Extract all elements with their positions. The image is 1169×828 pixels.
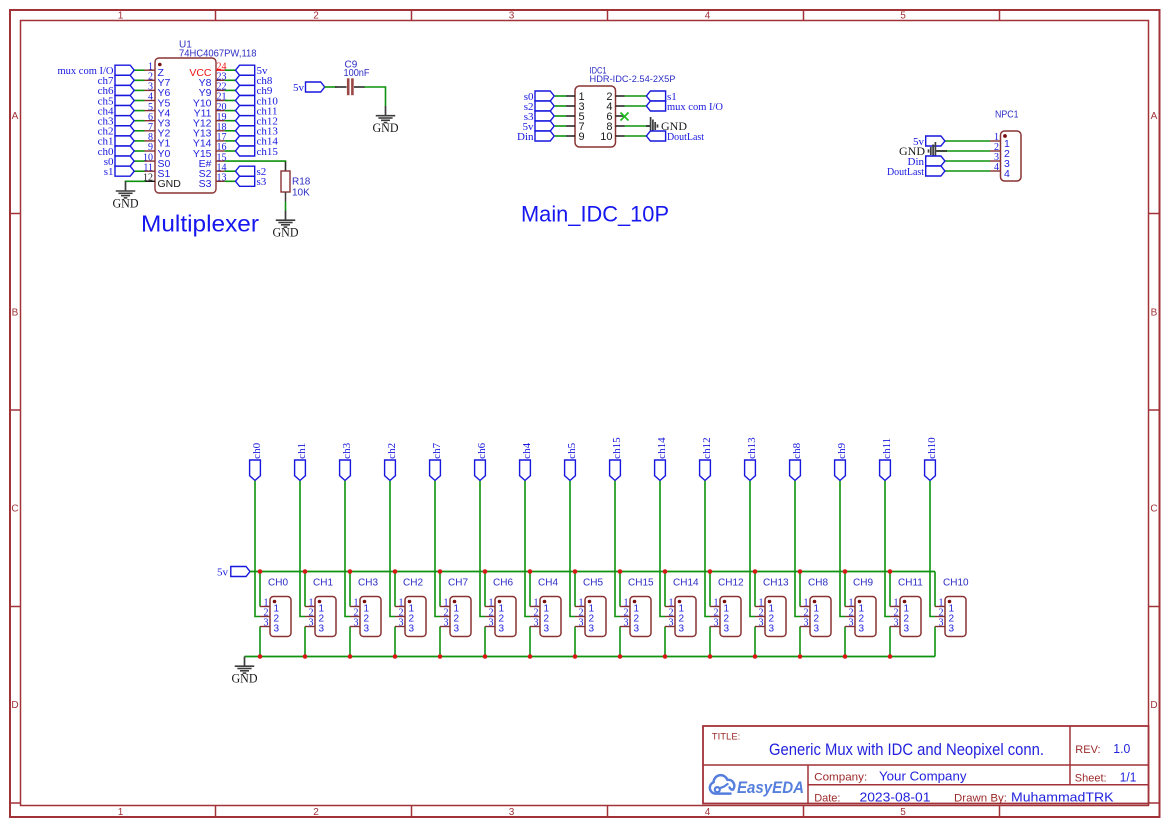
no-connect X pin 6 (621, 113, 629, 121)
svg-text:3: 3 (454, 624, 460, 635)
svg-text:3: 3 (509, 11, 515, 22)
wire (439, 627, 441, 657)
junction (573, 569, 578, 574)
node s0 (104, 156, 134, 168)
connector CH10 (935, 578, 969, 637)
svg-text:3: 3 (444, 618, 449, 629)
wire (225, 79, 236, 81)
wire (529, 627, 531, 657)
svg-text:R18: R18 (292, 177, 311, 188)
svg-text:4: 4 (1004, 168, 1010, 180)
node ch15 (610, 437, 624, 481)
svg-text:D: D (1150, 700, 1157, 711)
svg-text:GND: GND (273, 226, 299, 240)
wire (619, 627, 621, 657)
svg-text:3: 3 (489, 618, 494, 629)
wire (134, 89, 144, 91)
wire (225, 100, 236, 102)
junction (483, 569, 488, 574)
wire 5v bus (250, 571, 935, 573)
connector IDC1 HDR-IDC-2.54-2X5P (566, 66, 676, 148)
svg-text:ch6: ch6 (476, 442, 488, 458)
svg-text:GND: GND (232, 672, 258, 686)
svg-text:3: 3 (814, 624, 820, 635)
wire (285, 202, 287, 211)
svg-text:A: A (1151, 111, 1158, 122)
wire (844, 572, 846, 607)
svg-text:ch1: ch1 (296, 443, 308, 459)
svg-text:CH4: CH4 (538, 578, 558, 589)
svg-text:3: 3 (319, 624, 325, 635)
svg-text:Company:: Company: (814, 772, 867, 784)
wire (705, 481, 710, 617)
connector CH15 (620, 578, 654, 637)
wire (934, 572, 936, 607)
svg-text:C: C (1150, 504, 1157, 515)
svg-text:Multiplexer: Multiplexer (141, 211, 259, 237)
svg-text:A: A (12, 111, 19, 122)
svg-text:ch4: ch4 (521, 442, 533, 458)
svg-text:CH9: CH9 (853, 578, 873, 589)
svg-text:2: 2 (313, 11, 319, 22)
svg-text:ch13: ch13 (746, 437, 758, 459)
junction (798, 654, 803, 659)
node 5v (913, 136, 945, 148)
svg-text:C: C (11, 504, 18, 515)
connector CH11 (890, 578, 923, 637)
wire (435, 481, 440, 617)
svg-text:2023-08-01: 2023-08-01 (860, 791, 931, 805)
node s0 (524, 91, 554, 103)
node ch2 (385, 443, 399, 481)
svg-text:3: 3 (724, 624, 730, 635)
svg-text:1.0: 1.0 (1113, 742, 1130, 756)
wire (225, 150, 236, 152)
wire (625, 135, 647, 137)
wire (885, 481, 890, 617)
wire (225, 180, 236, 182)
node ch7 (98, 75, 135, 87)
wire (889, 627, 891, 657)
svg-text:4: 4 (994, 162, 999, 173)
junction (888, 654, 893, 659)
wire (754, 572, 756, 607)
node s2 (524, 101, 554, 113)
junction (753, 654, 758, 659)
node s1 (104, 166, 134, 178)
wire (709, 572, 711, 607)
title block (703, 726, 1149, 804)
wire (625, 105, 647, 107)
svg-text:5: 5 (900, 807, 906, 818)
junction (303, 569, 308, 574)
IC U1 74HC4067PW,118 multiplexer body (155, 40, 257, 194)
wire (625, 125, 651, 127)
svg-text:Date:: Date: (814, 793, 840, 805)
svg-text:Drawn By:: Drawn By: (954, 793, 1007, 805)
svg-text:ch2: ch2 (386, 443, 398, 459)
wire (225, 69, 236, 71)
connector CH7 (440, 578, 471, 637)
wire (134, 79, 144, 81)
ground (113, 181, 139, 210)
svg-text:TITLE:: TITLE: (712, 732, 741, 743)
connector CH8 (800, 578, 831, 637)
node ch13 (745, 437, 759, 481)
node ch3 (98, 116, 135, 128)
svg-text:10K: 10K (292, 188, 310, 199)
wire (390, 481, 395, 617)
wire (349, 627, 351, 657)
wire (134, 69, 144, 71)
svg-text:3: 3 (894, 618, 899, 629)
junction (618, 569, 623, 574)
node DoutLast (887, 166, 945, 178)
node ch5 (565, 442, 579, 480)
ground (373, 106, 399, 135)
node s3 (524, 111, 554, 123)
svg-text:ch11: ch11 (881, 438, 893, 459)
svg-text:ch12: ch12 (701, 437, 713, 458)
svg-text:CH13: CH13 (763, 578, 789, 589)
svg-text:3: 3 (849, 618, 854, 629)
wire (134, 150, 144, 152)
junction (663, 654, 668, 659)
svg-text:ch9: ch9 (836, 442, 848, 458)
svg-text:3: 3 (859, 624, 865, 635)
connector CH1 (305, 578, 336, 637)
connector CH4 (530, 578, 561, 637)
capacitor C9 (335, 60, 369, 96)
wire (259, 572, 261, 607)
wire (304, 572, 306, 607)
U1 pins right side (13-24) (189, 61, 226, 190)
wire (225, 160, 286, 163)
svg-text:CH8: CH8 (808, 578, 828, 589)
svg-text:GND: GND (373, 121, 399, 135)
wire (555, 105, 566, 107)
svg-text:3: 3 (579, 618, 584, 629)
svg-text:GND: GND (113, 196, 139, 210)
wire (844, 627, 846, 657)
svg-text:CH2: CH2 (403, 578, 423, 589)
junction (888, 569, 893, 574)
svg-text:CH1: CH1 (313, 578, 333, 589)
node 5v (293, 82, 325, 94)
wire (525, 481, 530, 617)
wire (259, 627, 261, 657)
node ch1 (98, 136, 135, 148)
wire (134, 120, 144, 122)
svg-text:ch5: ch5 (566, 442, 578, 458)
node ch10 (925, 437, 939, 481)
wire (555, 125, 566, 127)
wire (799, 627, 801, 657)
node ch7 (430, 442, 444, 480)
connector CH12 (710, 578, 744, 637)
svg-text:3: 3 (804, 618, 809, 629)
wire (134, 130, 144, 132)
wire (394, 627, 396, 657)
node 5v (236, 65, 269, 77)
svg-text:5v: 5v (217, 566, 229, 578)
svg-text:ch15: ch15 (257, 146, 279, 158)
EasyEDA logo (710, 775, 804, 797)
resistor R18 (281, 162, 311, 202)
svg-text:Your Company: Your Company (879, 770, 967, 784)
wire (574, 627, 576, 657)
svg-text:3: 3 (904, 624, 910, 635)
svg-text:CH6: CH6 (493, 578, 513, 589)
svg-text:CH15: CH15 (628, 578, 654, 589)
wire (225, 130, 236, 132)
svg-text:B: B (12, 308, 19, 319)
svg-text:1: 1 (118, 807, 124, 818)
node ch8 (236, 75, 273, 87)
svg-text:GND: GND (158, 178, 182, 190)
node ch2 (98, 126, 135, 138)
wire (750, 481, 755, 617)
node s2 (236, 166, 267, 178)
wire (255, 481, 260, 617)
svg-text:Generic Mux with IDC and Neopi: Generic Mux with IDC and Neopixel conn. (769, 740, 1044, 759)
junction (528, 569, 533, 574)
junction (663, 569, 668, 574)
wire (889, 572, 891, 607)
wire (660, 481, 665, 617)
wire (945, 160, 990, 162)
svg-text:ch7: ch7 (431, 442, 443, 458)
svg-text:1/1: 1/1 (1120, 771, 1137, 785)
wire (570, 481, 575, 617)
node ch6 (475, 442, 489, 480)
junction (708, 569, 713, 574)
svg-text:Sheet:: Sheet: (1075, 773, 1107, 785)
svg-text:4: 4 (705, 807, 711, 818)
ground (273, 211, 299, 240)
wire (795, 481, 800, 617)
svg-text:s1: s1 (104, 166, 114, 178)
node 5v (523, 121, 555, 133)
connector CH14 (665, 578, 699, 637)
svg-text:3: 3 (939, 618, 944, 629)
wire (930, 481, 935, 617)
wire (134, 140, 144, 142)
svg-text:Main_IDC_10P: Main_IDC_10P (521, 202, 669, 227)
node 5v (channel supply) (217, 566, 250, 578)
svg-text:REV:: REV: (1075, 744, 1100, 756)
junction (348, 654, 353, 659)
wire (345, 481, 350, 617)
svg-text:CH7: CH7 (448, 578, 468, 589)
junction (393, 569, 398, 574)
svg-text:3: 3 (309, 618, 314, 629)
svg-text:3: 3 (399, 618, 404, 629)
connector CH5 (575, 578, 606, 637)
svg-text:ch8: ch8 (791, 442, 803, 458)
junction (843, 654, 848, 659)
svg-text:2: 2 (313, 807, 319, 818)
connector NPC1 (990, 110, 1021, 182)
svg-text:4: 4 (705, 11, 711, 22)
svg-text:3: 3 (634, 624, 640, 635)
svg-text:HDR-IDC-2.54-2X5P: HDR-IDC-2.54-2X5P (590, 74, 676, 85)
node ch13 (236, 126, 279, 138)
svg-text:CH14: CH14 (673, 578, 699, 589)
svg-text:5v: 5v (293, 82, 305, 94)
wire gnd bus (245, 656, 936, 658)
wire (945, 140, 990, 142)
connector CH2 (395, 578, 426, 637)
svg-text:100nF: 100nF (344, 68, 370, 79)
wire (574, 572, 576, 607)
wire (754, 627, 756, 657)
junction (303, 654, 308, 659)
svg-text:3: 3 (264, 618, 269, 629)
wire (349, 572, 351, 607)
node s3 (236, 176, 267, 188)
wire (134, 160, 144, 162)
junction (843, 569, 848, 574)
junction (258, 654, 263, 659)
node ch4 (520, 442, 534, 480)
svg-text:1: 1 (118, 11, 124, 22)
svg-text:mux com I/O: mux com I/O (667, 101, 723, 113)
svg-text:3: 3 (409, 624, 415, 635)
svg-text:EasyEDA: EasyEDA (737, 779, 804, 797)
junction (483, 654, 488, 659)
svg-text:ch14: ch14 (656, 437, 668, 459)
junction (258, 569, 263, 574)
ground (646, 117, 687, 135)
node ch3 (340, 442, 354, 480)
wire (134, 170, 144, 172)
svg-text:ch0: ch0 (251, 442, 263, 458)
node ch9 (236, 85, 273, 97)
wire (300, 481, 305, 617)
wire (225, 110, 236, 112)
svg-text:74HC4067PW,118: 74HC4067PW,118 (179, 49, 257, 60)
node mux com I/O (58, 65, 135, 77)
wire (625, 95, 647, 97)
svg-text:5: 5 (900, 11, 906, 22)
wire (529, 572, 531, 607)
svg-text:D: D (11, 700, 18, 711)
svg-text:3: 3 (364, 624, 370, 635)
node ch9 (835, 442, 849, 480)
wire (225, 140, 236, 142)
connector CH6 (485, 578, 516, 637)
wire (225, 89, 236, 91)
node ch14 (236, 136, 279, 148)
node ch11 (236, 105, 278, 117)
junction (708, 654, 713, 659)
node ch11 (880, 438, 894, 481)
junction (753, 569, 758, 574)
node ch10 (236, 95, 279, 107)
svg-text:3: 3 (769, 624, 775, 635)
wire (840, 481, 845, 617)
node s1 (646, 91, 676, 103)
ground (899, 142, 947, 160)
wire (325, 86, 337, 88)
svg-text:3: 3 (274, 624, 280, 635)
svg-text:ch3: ch3 (341, 442, 353, 458)
svg-text:S3: S3 (199, 178, 212, 190)
wire (945, 170, 990, 172)
svg-text:DoutLast: DoutLast (667, 131, 704, 143)
svg-text:10: 10 (600, 131, 612, 143)
svg-text:MuhammadTRK: MuhammadTRK (1011, 791, 1114, 805)
wire (799, 572, 801, 607)
svg-text:3: 3 (509, 807, 515, 818)
svg-text:3: 3 (499, 624, 505, 635)
node ch0 (98, 146, 135, 158)
svg-text:CH11: CH11 (898, 578, 923, 589)
wire (664, 627, 666, 657)
junction (348, 569, 353, 574)
node ch8 (790, 442, 804, 480)
wire (664, 572, 666, 607)
wire (225, 120, 236, 122)
svg-text:CH3: CH3 (358, 578, 378, 589)
svg-text:DoutLast: DoutLast (887, 166, 924, 178)
svg-text:3: 3 (679, 624, 685, 635)
svg-text:CH10: CH10 (943, 578, 969, 589)
wire (134, 110, 144, 112)
junction (528, 654, 533, 659)
node ch14 (655, 437, 669, 481)
node mux com I/O (646, 101, 723, 113)
wire (619, 572, 621, 607)
wire (134, 100, 144, 102)
svg-text:3: 3 (714, 618, 719, 629)
node ch6 (98, 85, 135, 97)
U1 pins left side (1-12) (143, 61, 181, 190)
svg-text:9: 9 (579, 131, 585, 143)
node Din (517, 131, 554, 143)
wire (555, 135, 566, 137)
junction (618, 654, 623, 659)
wire (439, 572, 441, 607)
wire (364, 87, 386, 106)
svg-text:3: 3 (544, 624, 550, 635)
svg-text:ch15: ch15 (611, 437, 623, 459)
wire (484, 627, 486, 657)
svg-text:3: 3 (759, 618, 764, 629)
wire (615, 481, 620, 617)
wire (304, 627, 306, 657)
node Din (908, 156, 945, 168)
ground (232, 657, 258, 686)
junction (438, 569, 443, 574)
junction (798, 569, 803, 574)
svg-text:3: 3 (949, 624, 955, 635)
svg-text:3: 3 (669, 618, 674, 629)
connector CH0 (260, 578, 291, 637)
svg-text:NPC1: NPC1 (995, 110, 1019, 121)
node ch12 (700, 437, 714, 480)
node DoutLast (646, 131, 704, 143)
svg-text:3: 3 (624, 618, 629, 629)
junction (393, 654, 398, 659)
wire (555, 115, 566, 117)
svg-text:3: 3 (354, 618, 359, 629)
svg-text:3: 3 (534, 618, 539, 629)
wire (555, 95, 566, 97)
wire (394, 572, 396, 607)
junction (573, 654, 578, 659)
